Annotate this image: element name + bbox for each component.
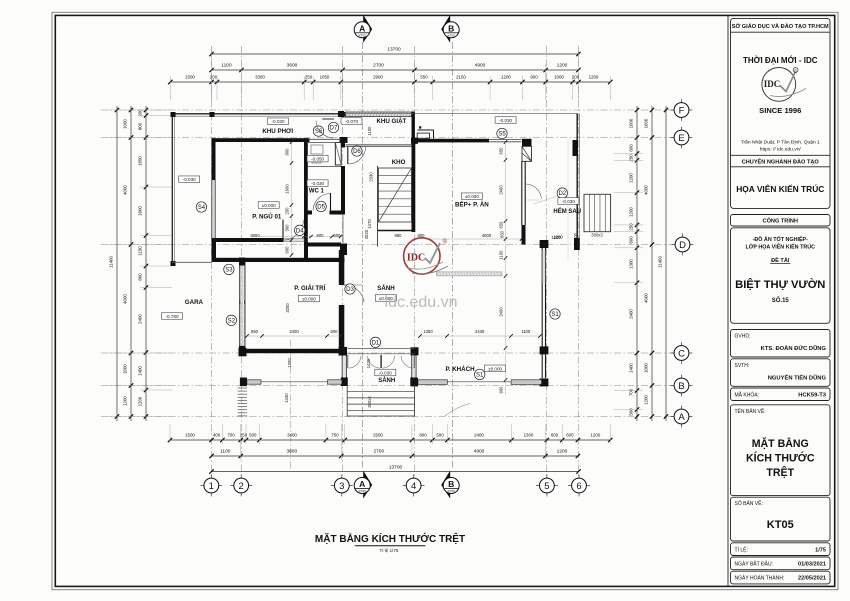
title block school box: [731, 18, 831, 208]
title block ngay bat dau box: [731, 557, 831, 570]
svg-text:1000: 1000: [644, 118, 649, 128]
door label D4: [295, 225, 305, 235]
svg-text:1600: 1600: [285, 184, 290, 194]
svg-text:900: 900: [285, 148, 290, 156]
svg-text:550: 550: [251, 329, 259, 334]
wall bedroom south: [216, 238, 284, 242]
door D4 threshold: [284, 239, 305, 242]
svg-text:2400: 2400: [138, 314, 143, 324]
side yard south edge: [172, 261, 212, 263]
svg-text:1000: 1000: [629, 118, 634, 128]
svg-text:1300: 1300: [524, 433, 534, 438]
svg-text:A: A: [678, 412, 685, 423]
svg-text:D2: D2: [558, 191, 566, 197]
grid lines columns 1-6: [212, 46, 579, 477]
svg-text:3300: 3300: [255, 75, 265, 80]
svg-text:KT05: KT05: [359, 489, 367, 493]
svg-text:1100: 1100: [220, 449, 231, 455]
svg-text:SỐ.15: SỐ.15: [772, 297, 790, 304]
grid bubble 3: [331, 475, 353, 497]
svg-text:400: 400: [213, 433, 221, 438]
svg-text:±0.000: ±0.000: [262, 203, 276, 208]
svg-text:4000: 4000: [123, 294, 128, 304]
wall wc north thin: [308, 139, 341, 142]
fence east col6: [344, 113, 580, 250]
wall bep north on row E: [411, 138, 489, 144]
room label sanh upper: [377, 285, 395, 292]
level gara: [162, 313, 183, 320]
right extension lines: [614, 154, 643, 410]
title block address: [731, 140, 831, 156]
window label S1 south: [475, 369, 485, 379]
svg-text:TÊN BẢN VẼ:: TÊN BẢN VẼ:: [735, 407, 766, 415]
interior rotated dims bep east: [499, 139, 569, 395]
porch sanh west wall: [341, 354, 348, 386]
svg-text:SỞ GIÁO DỤC VÀ ĐÀO TẠO TP.HCM: SỞ GIÁO DỤC VÀ ĐÀO TẠO TP.HCM: [732, 23, 829, 30]
section line A-A: [361, 42, 363, 470]
right dimension column details: [629, 106, 640, 421]
svg-text:1200: 1200: [629, 207, 634, 217]
IDC logo circle: [762, 68, 806, 102]
title block ma khoa box: [731, 388, 831, 401]
title block ten ban ve box: [731, 405, 831, 496]
svg-text:3: 3: [339, 481, 344, 492]
khu giat top wall hatched: [340, 112, 411, 117]
title block cong trinh box: [731, 215, 831, 227]
svg-text:5: 5: [544, 481, 549, 492]
svg-text:600: 600: [629, 236, 634, 244]
svg-text:ĐỀ TÀI: ĐỀ TÀI: [771, 257, 790, 264]
porch sanh east wall: [410, 354, 417, 386]
grid bubble C: [671, 342, 693, 364]
svg-text:4: 4: [411, 481, 416, 492]
wall p giai tri east: [339, 250, 345, 352]
svg-text:1430: 1430: [284, 393, 289, 403]
title block divider line: [727, 15, 729, 586]
svg-text:S1: S1: [476, 373, 484, 379]
svg-text:MẶT BẰNG: MẶT BẰNG: [752, 437, 809, 450]
svg-text:S4: S4: [198, 205, 206, 211]
svg-text:600: 600: [551, 433, 559, 438]
svg-text:13700: 13700: [387, 47, 401, 53]
door D7 arc: [316, 119, 334, 138]
svg-text:E: E: [678, 133, 684, 144]
window S5 lines: [489, 140, 522, 142]
grid bubble 5: [536, 475, 558, 497]
window label S3: [224, 264, 234, 274]
svg-text:P. KHÁCH: P. KHÁCH: [445, 366, 475, 373]
room label gara: [185, 299, 204, 306]
window S4 hatch: [212, 180, 216, 238]
khu giat bottom wall: [346, 145, 412, 147]
svg-text:S3: S3: [225, 268, 233, 274]
svg-text:2400: 2400: [499, 185, 504, 195]
svg-text:1500: 1500: [185, 75, 195, 80]
svg-text:2400: 2400: [629, 309, 634, 319]
svg-text:1050: 1050: [320, 75, 330, 80]
svg-text:1100: 1100: [521, 329, 531, 334]
room label khu giat: [376, 118, 406, 125]
svg-text:800: 800: [138, 122, 143, 130]
wall row C p giai tri south: [239, 347, 348, 356]
svg-text:1000: 1000: [644, 363, 649, 373]
svg-text:A: A: [359, 479, 365, 489]
svg-text:P. NGỦ 01: P. NGỦ 01: [252, 214, 282, 221]
svg-text:S5: S5: [498, 132, 506, 138]
svg-text:Trần Nhật Duật, P Tân Định, Qu: Trần Nhật Duật, P Tân Định, Quận 1: [741, 140, 820, 146]
svg-text:1400: 1400: [629, 363, 634, 373]
svg-text:SINCE 1996: SINCE 1996: [759, 106, 801, 115]
svg-text:800: 800: [138, 273, 143, 281]
section flag A top: [354, 15, 372, 43]
svg-text:2400: 2400: [499, 307, 504, 317]
khu giat east wall col4: [412, 112, 415, 142]
svg-text:250: 250: [240, 433, 248, 438]
section flag B bottom: [441, 471, 459, 499]
svg-text:HỌA VIÊN KIẾN TRÚC: HỌA VIÊN KIẾN TRÚC: [736, 183, 824, 194]
outdoor stair hem sau: [584, 194, 611, 231]
door label D5: [316, 201, 326, 211]
svg-text:2900: 2900: [373, 75, 383, 80]
section line B-B: [451, 42, 453, 470]
beam hatch band open plan: [437, 272, 503, 276]
svg-text:TỈ LỆ:: TỈ LỆ:: [735, 545, 748, 553]
svg-text:±0.000: ±0.000: [465, 194, 479, 199]
svg-text:IDC: IDC: [407, 253, 425, 264]
interior rotated dims kho west: [367, 172, 374, 229]
svg-text:-0.030: -0.030: [379, 371, 392, 376]
porch interior dim 1430: [366, 358, 371, 368]
section flag A bottom: [354, 471, 372, 499]
svg-text:WC 1: WC 1: [309, 189, 325, 195]
svg-text:A: A: [359, 23, 365, 33]
WC fixtures: [311, 145, 323, 163]
svg-text:KHO: KHO: [392, 159, 406, 166]
wall p giai tri north full: [212, 242, 345, 262]
svg-text:B: B: [448, 479, 454, 489]
svg-text:300x3: 300x3: [591, 232, 603, 237]
grid bubble D: [672, 234, 694, 256]
svg-text:BIỆT THỰ VƯỜN: BIỆT THỰ VƯỜN: [735, 278, 825, 291]
svg-text:3200: 3200: [285, 303, 290, 313]
svg-text:Tỉ lệ 1/75: Tỉ lệ 1/75: [380, 547, 399, 553]
svg-text:-0.780: -0.780: [165, 314, 178, 319]
svg-text:D4: D4: [296, 228, 304, 234]
grid bubble 1: [200, 475, 222, 497]
room label kho: [392, 159, 406, 166]
svg-text:1350: 1350: [423, 329, 433, 334]
row B low wall pkhach front: [411, 378, 542, 387]
stair in kho: [378, 166, 412, 247]
watermark idc.edu.vn: [385, 294, 458, 311]
svg-text:1200: 1200: [557, 63, 568, 69]
wall pkhach east with window S1: [540, 248, 549, 386]
level -0.070: [341, 118, 362, 125]
svg-text:S2: S2: [228, 318, 236, 324]
svg-text:THỜI ĐẠI MỚI - IDC: THỜI ĐẠI MỚI - IDC: [743, 56, 818, 65]
svg-text:D5: D5: [317, 205, 325, 211]
svg-text:NGUYỄN TIẾN DŨNG: NGUYỄN TIẾN DŨNG: [768, 375, 827, 382]
gara ramp hatch: [238, 388, 248, 416]
room label p giai tri: [294, 284, 325, 292]
top dimension row axis spans: [209, 63, 580, 73]
svg-text:HẺM SAU: HẺM SAU: [553, 208, 581, 215]
svg-text:4000: 4000: [644, 185, 649, 195]
double door D1 arcs: [348, 349, 415, 369]
svg-text:1200: 1200: [123, 396, 128, 406]
svg-text:2400: 2400: [474, 433, 484, 438]
row B low wall left terrace: [240, 378, 342, 387]
svg-text:1200: 1200: [629, 173, 634, 183]
svg-text:750: 750: [331, 433, 339, 438]
wall bedroom east: [304, 138, 308, 258]
svg-text:1200: 1200: [557, 449, 568, 455]
svg-text:2500: 2500: [373, 433, 383, 438]
left extension lines: [108, 110, 172, 417]
title block so ban ve box: [731, 497, 831, 541]
level top right -0.030: [495, 117, 516, 124]
understair wall: [378, 230, 415, 232]
svg-text:01/03/2021: 01/03/2021: [798, 562, 826, 568]
svg-text:1430: 1430: [366, 358, 371, 368]
left dimension column details: [138, 106, 149, 421]
wall WC south: [304, 211, 345, 215]
door D3 arc: [344, 285, 365, 302]
title block ti le box: [731, 543, 831, 556]
pier col4 row C: [411, 347, 419, 355]
svg-text:360: 360: [285, 224, 290, 232]
level side yard: [179, 176, 200, 183]
svg-text:1200: 1200: [553, 235, 563, 240]
svg-text:300: 300: [573, 232, 578, 240]
svg-text:1400: 1400: [138, 366, 143, 376]
left dimension column axis spans: [123, 106, 134, 421]
svg-text:±0.000: ±0.000: [488, 366, 502, 371]
window label S1 east: [550, 309, 560, 319]
door D6 leaf and arc: [348, 146, 366, 164]
title block gvhd box: [731, 330, 831, 358]
red IDC stamp: [404, 238, 448, 274]
svg-text:4900: 4900: [475, 63, 486, 69]
svg-text:1: 1: [209, 481, 214, 492]
svg-text:CÔNG TRÌNH: CÔNG TRÌNH: [763, 217, 798, 225]
svg-text:4520: 4520: [364, 229, 369, 239]
svg-text:900: 900: [499, 386, 504, 394]
svg-text:1200: 1200: [591, 433, 601, 438]
svg-text:11400: 11400: [109, 256, 114, 268]
svg-text:800: 800: [419, 433, 427, 438]
svg-text:KTS. ĐOÀN ĐỨC DŨNG: KTS. ĐOÀN ĐỨC DŨNG: [761, 345, 827, 352]
auxiliary grid line: [290, 340, 292, 470]
room label bep: [455, 201, 489, 208]
section flag B top: [441, 15, 459, 43]
room label p khach: [445, 366, 475, 373]
WC divider: [308, 166, 341, 168]
interior dims p khach: [418, 329, 542, 338]
svg-text:-0.050: -0.050: [311, 157, 324, 162]
wall p giai tri west windows S2 S3: [239, 258, 245, 354]
svg-text:1100: 1100: [221, 63, 232, 69]
room label wc1: [309, 189, 325, 195]
svg-text:600: 600: [566, 433, 574, 438]
svg-text:-0.030: -0.030: [499, 118, 512, 123]
svg-text:250: 250: [305, 75, 313, 80]
svg-text:1200: 1200: [589, 75, 599, 80]
svg-text:https: // idc.edu.vn/: https: // idc.edu.vn/: [760, 147, 802, 153]
svg-text:GARA: GARA: [185, 299, 204, 306]
svg-text:KHU GIẶT: KHU GIẶT: [376, 118, 406, 125]
svg-text:500: 500: [629, 408, 634, 416]
interior rotated dims khu giat and hem sau: [284, 126, 563, 403]
svg-text:800: 800: [317, 233, 325, 238]
title block brand: [743, 56, 818, 65]
svg-text:1150: 1150: [138, 246, 143, 256]
svg-text:200: 200: [210, 75, 218, 80]
svg-text:2: 2: [239, 481, 244, 492]
svg-text:700: 700: [629, 388, 634, 396]
svg-text:2150: 2150: [456, 75, 466, 80]
door label D7: [328, 122, 338, 132]
top dimension row details: [168, 75, 612, 85]
svg-text:4000: 4000: [644, 293, 649, 303]
svg-text:D: D: [679, 240, 686, 251]
column markers boundary: [171, 111, 345, 266]
svg-text:700: 700: [227, 433, 235, 438]
svg-text:D3: D3: [346, 287, 354, 293]
room label sanh porch: [378, 377, 395, 384]
svg-text:1200: 1200: [138, 396, 143, 406]
svg-text:C: C: [678, 348, 685, 359]
pier bep northeast hatched: [522, 139, 532, 162]
svg-text:3600: 3600: [287, 63, 298, 69]
room label bedroom: [252, 214, 282, 221]
level hem sau: [558, 198, 579, 205]
svg-text:MÃ KHÓA:: MÃ KHÓA:: [735, 392, 759, 399]
svg-text:4900: 4900: [474, 449, 485, 455]
svg-text:1100: 1100: [499, 250, 504, 260]
svg-text:GVHD:: GVHD:: [735, 334, 751, 340]
svg-text:550: 550: [420, 75, 428, 80]
interior dimension row above row D: [250, 229, 578, 241]
svg-text:D7: D7: [330, 126, 338, 132]
svg-text:1000: 1000: [554, 75, 564, 80]
wall bedroom north on row E: [212, 138, 310, 142]
door label D3: [345, 284, 355, 294]
window label S2: [226, 315, 236, 325]
svg-text:1/75: 1/75: [815, 547, 826, 553]
svg-text:KT05: KT05: [448, 489, 456, 493]
svg-text:500: 500: [436, 433, 444, 438]
svg-text:1470: 1470: [367, 219, 372, 229]
svg-text:MẶT BẰNG KÍCH THƯỚC TRỆT: MẶT BẰNG KÍCH THƯỚC TRỆT: [315, 532, 465, 545]
interior rotated dims bedroom east: [285, 140, 294, 257]
svg-text:11400: 11400: [658, 256, 663, 268]
wall hallway south on row D: [304, 242, 347, 258]
svg-text:KT05: KT05: [448, 33, 456, 37]
window label S4: [196, 202, 206, 212]
svg-text:NGÀY BẮT ĐẦU:: NGÀY BẮT ĐẦU:: [735, 560, 773, 568]
svg-text:1200: 1200: [287, 358, 292, 368]
svg-text:SVTH:: SVTH:: [735, 363, 750, 369]
grid bubble 2: [230, 475, 252, 497]
svg-text:NGÀY HOÀN THÀNH:: NGÀY HOÀN THÀNH:: [735, 575, 785, 582]
grid lines rows A-F: [101, 110, 673, 417]
svg-text:B: B: [448, 23, 454, 33]
level sanh porch: [375, 369, 396, 376]
svg-text:LỚP HỌA VIÊN KIẾN TRÚC: LỚP HỌA VIÊN KIẾN TRÚC: [745, 243, 815, 251]
svg-text:980: 980: [395, 233, 403, 238]
svg-text:BẾP+ P. ĂN: BẾP+ P. ĂN: [455, 201, 489, 208]
interior dims p giai tri: [245, 303, 344, 338]
svg-text:600: 600: [331, 329, 339, 334]
door label D6: [352, 146, 362, 156]
svg-text:TRỆT: TRỆT: [766, 466, 794, 479]
svg-text:600: 600: [629, 144, 634, 152]
pier col5 row D: [540, 240, 549, 248]
svg-text:250: 250: [629, 223, 634, 231]
bottom dimension row details: [168, 433, 613, 443]
door D2 arc: [526, 184, 542, 200]
svg-text:P. GIẢI TRÍ: P. GIẢI TRÍ: [294, 284, 325, 292]
window label S5: [497, 128, 507, 138]
svg-text:SỐ BẢN VẼ:: SỐ BẢN VẼ:: [735, 500, 763, 507]
level khu phoi: [268, 118, 289, 125]
svg-text:1300: 1300: [629, 259, 634, 269]
svg-text:-0.030: -0.030: [183, 177, 196, 182]
svg-text:KHU PHƠI: KHU PHƠI: [262, 128, 293, 135]
boundary wall khu phoi top: [172, 114, 345, 116]
title block hoa vien kien truc: [736, 183, 824, 194]
svg-text:F: F: [679, 105, 685, 116]
svg-text:2400: 2400: [289, 329, 299, 334]
left dimension column overall 11400: [109, 106, 120, 421]
shaft box with cross: [335, 143, 341, 166]
svg-text:S1: S1: [551, 312, 559, 318]
title block ngay hoan thanh box: [731, 571, 831, 584]
svg-text:2700: 2700: [373, 449, 384, 455]
bottom extension lines: [170, 424, 610, 460]
front entrance steps: [347, 384, 414, 416]
svg-text:13700: 13700: [389, 465, 403, 471]
drawing title: [315, 532, 465, 553]
svg-text:-0.030: -0.030: [311, 181, 324, 186]
svg-text:®: ®: [443, 239, 448, 246]
svg-text:3650: 3650: [250, 233, 260, 238]
grid bubble 4: [403, 475, 425, 497]
svg-text:IDC: IDC: [764, 79, 781, 89]
svg-text:D1: D1: [372, 340, 380, 346]
svg-text:1500: 1500: [185, 433, 195, 438]
svg-text:1000: 1000: [123, 364, 128, 374]
title block since 1996: [759, 106, 801, 115]
door label D1: [370, 337, 380, 347]
grid bubble A: [671, 406, 693, 428]
svg-text:HCK59-T3: HCK59-T3: [798, 393, 826, 399]
door label D2: [557, 188, 567, 198]
kitchen counter sink: [417, 126, 433, 138]
svg-text:SẢNH: SẢNH: [378, 377, 395, 384]
grid bubble F: [671, 99, 693, 121]
level p giai tri: [298, 295, 319, 302]
boundary wall west: [172, 114, 174, 265]
svg-text:900: 900: [530, 75, 538, 80]
svg-text:4000: 4000: [123, 185, 128, 195]
svg-text:B: B: [678, 381, 684, 392]
svg-text:22/05/2021: 22/05/2021: [798, 576, 826, 582]
svg-text:CHUYÊN NGHÀNH ĐÀO TẠO: CHUYÊN NGHÀNH ĐÀO TẠO: [742, 158, 820, 166]
svg-text:650: 650: [499, 221, 504, 229]
svg-text:-0.030: -0.030: [271, 119, 284, 124]
